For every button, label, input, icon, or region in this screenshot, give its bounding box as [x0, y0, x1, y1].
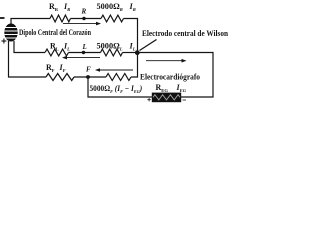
wire node F down and right to electrocardiograph: [88, 77, 152, 97]
dipole source ellipse: [4, 24, 17, 42]
minus terminal mark: [0, 17, 5, 19]
pointer line to Wilson node: [140, 40, 157, 51]
svg-text:L: L: [82, 43, 87, 51]
current arrow I_L: [62, 56, 100, 60]
node L: [82, 51, 85, 54]
wire dipole right lead to middle row: [14, 41, 45, 53]
resistor 5000ohm L: [101, 49, 123, 56]
wire 5000L to Wilson node: [123, 52, 138, 54]
minus mark at R_EG right: [183, 99, 186, 101]
wire dipole left lead down to bottom row: [9, 41, 47, 77]
node F: [86, 75, 90, 79]
current arrow I_F minus I_EG: [95, 68, 133, 72]
svg-text:R: R: [81, 8, 87, 16]
wire Wilson node right and down to electrocardiograph: [138, 53, 214, 98]
resistor R_L: [45, 49, 69, 56]
current arrow I_R: [63, 22, 101, 26]
wire R_F to node F: [74, 76, 106, 78]
Wilson central node: [135, 50, 140, 55]
current arrow I_EG: [146, 59, 187, 63]
svg-text:Electrodo central de Wilson: Electrodo central de Wilson: [142, 29, 228, 38]
wire top right corner down to Wilson node: [124, 19, 138, 53]
wire R_R to 5000: [71, 18, 102, 20]
svg-text:5000ΩRIR: 5000ΩRIR: [97, 2, 136, 12]
resistor 5000ohm F: [106, 74, 131, 81]
svg-text:Dipolo Central del Corazón: Dipolo Central del Corazón: [19, 28, 91, 37]
electrocardiograph resistor R_EG: [152, 93, 181, 103]
resistor R_F: [46, 74, 74, 81]
plus mark at R_EG left: [147, 98, 150, 101]
wire R_L to 5000: [69, 52, 101, 54]
plus terminal mark: [1, 39, 6, 44]
svg-text:F: F: [86, 66, 91, 74]
resistor R_R: [50, 15, 71, 22]
svg-text:Electrocardiógrafo: Electrocardiógrafo: [140, 73, 200, 82]
wire top lead from dipole up: [11, 19, 50, 25]
resistor 5000ohm R: [101, 15, 124, 22]
svg-text:5000ΩLIL: 5000ΩLIL: [97, 42, 136, 52]
wire 5000F up to Wilson node: [131, 53, 138, 78]
node R: [82, 17, 85, 20]
